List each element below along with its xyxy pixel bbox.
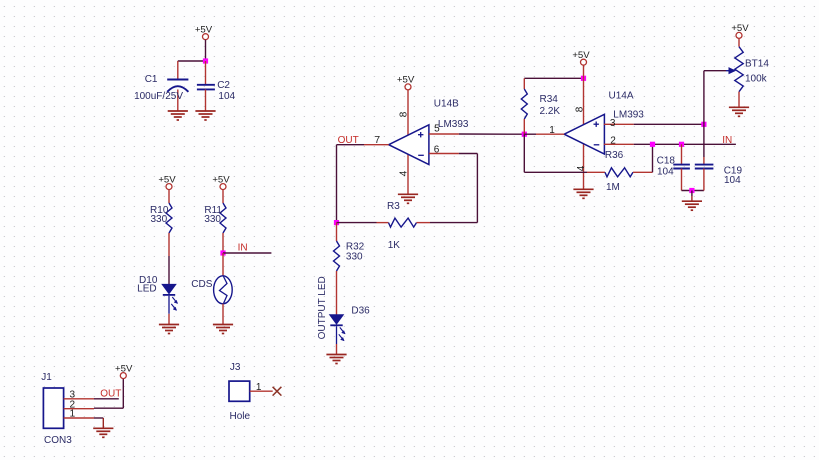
svg-text:7: 7	[375, 135, 381, 146]
svg-text:6: 6	[434, 144, 440, 155]
svg-text:4: 4	[399, 170, 410, 176]
svg-text:IN: IN	[722, 135, 732, 146]
svg-text:J1: J1	[41, 372, 52, 383]
svg-text:CDS: CDS	[191, 279, 212, 290]
svg-text:+5V: +5V	[212, 174, 230, 185]
svg-text:4: 4	[576, 165, 587, 171]
svg-text:C18: C18	[657, 156, 676, 167]
svg-text:3: 3	[610, 118, 616, 129]
svg-text:R34: R34	[540, 94, 559, 105]
svg-text:1M: 1M	[606, 182, 620, 193]
svg-text:330: 330	[204, 214, 221, 225]
svg-text:R3: R3	[387, 201, 400, 212]
svg-text:OUT: OUT	[100, 388, 121, 399]
svg-text:+5V: +5V	[195, 25, 213, 36]
svg-text:U14B: U14B	[434, 99, 459, 110]
svg-text:+5V: +5V	[397, 75, 415, 86]
svg-text:+5V: +5V	[115, 363, 133, 374]
svg-text:8: 8	[399, 111, 410, 117]
svg-text:C2: C2	[217, 80, 230, 91]
svg-text:LM393: LM393	[613, 110, 644, 121]
svg-text:5: 5	[434, 124, 440, 135]
svg-text:100k: 100k	[745, 74, 768, 85]
svg-text:C1: C1	[145, 74, 158, 85]
svg-text:1: 1	[549, 125, 555, 136]
svg-text:LED: LED	[137, 283, 156, 294]
svg-text:Hole: Hole	[230, 411, 251, 422]
svg-text:D36: D36	[351, 306, 370, 317]
svg-text:104: 104	[657, 166, 674, 177]
svg-text:R36: R36	[605, 150, 624, 161]
svg-text:OUTPUT LED: OUTPUT LED	[317, 276, 328, 339]
svg-text:+5V: +5V	[572, 50, 590, 61]
svg-text:CON3: CON3	[44, 435, 72, 446]
svg-text:1: 1	[256, 382, 262, 393]
svg-text:BT14: BT14	[745, 59, 769, 70]
svg-text:1K: 1K	[388, 240, 401, 251]
svg-text:LM393: LM393	[438, 119, 469, 130]
svg-text:2: 2	[610, 136, 616, 147]
svg-text:OUT: OUT	[338, 135, 359, 146]
svg-text:330: 330	[346, 251, 363, 262]
svg-text:330: 330	[151, 214, 168, 225]
svg-text:104: 104	[724, 175, 741, 186]
svg-text:J3: J3	[230, 362, 241, 373]
svg-text:104: 104	[218, 91, 235, 102]
svg-text:1: 1	[70, 409, 76, 420]
svg-text:U14A: U14A	[609, 90, 634, 101]
svg-text:+5V: +5V	[158, 174, 176, 185]
svg-text:+5V: +5V	[731, 23, 749, 34]
svg-text:2.2K: 2.2K	[540, 106, 561, 117]
svg-text:8: 8	[575, 106, 586, 112]
svg-text:IN: IN	[238, 242, 248, 253]
svg-text:100uF/25V: 100uF/25V	[134, 91, 183, 102]
